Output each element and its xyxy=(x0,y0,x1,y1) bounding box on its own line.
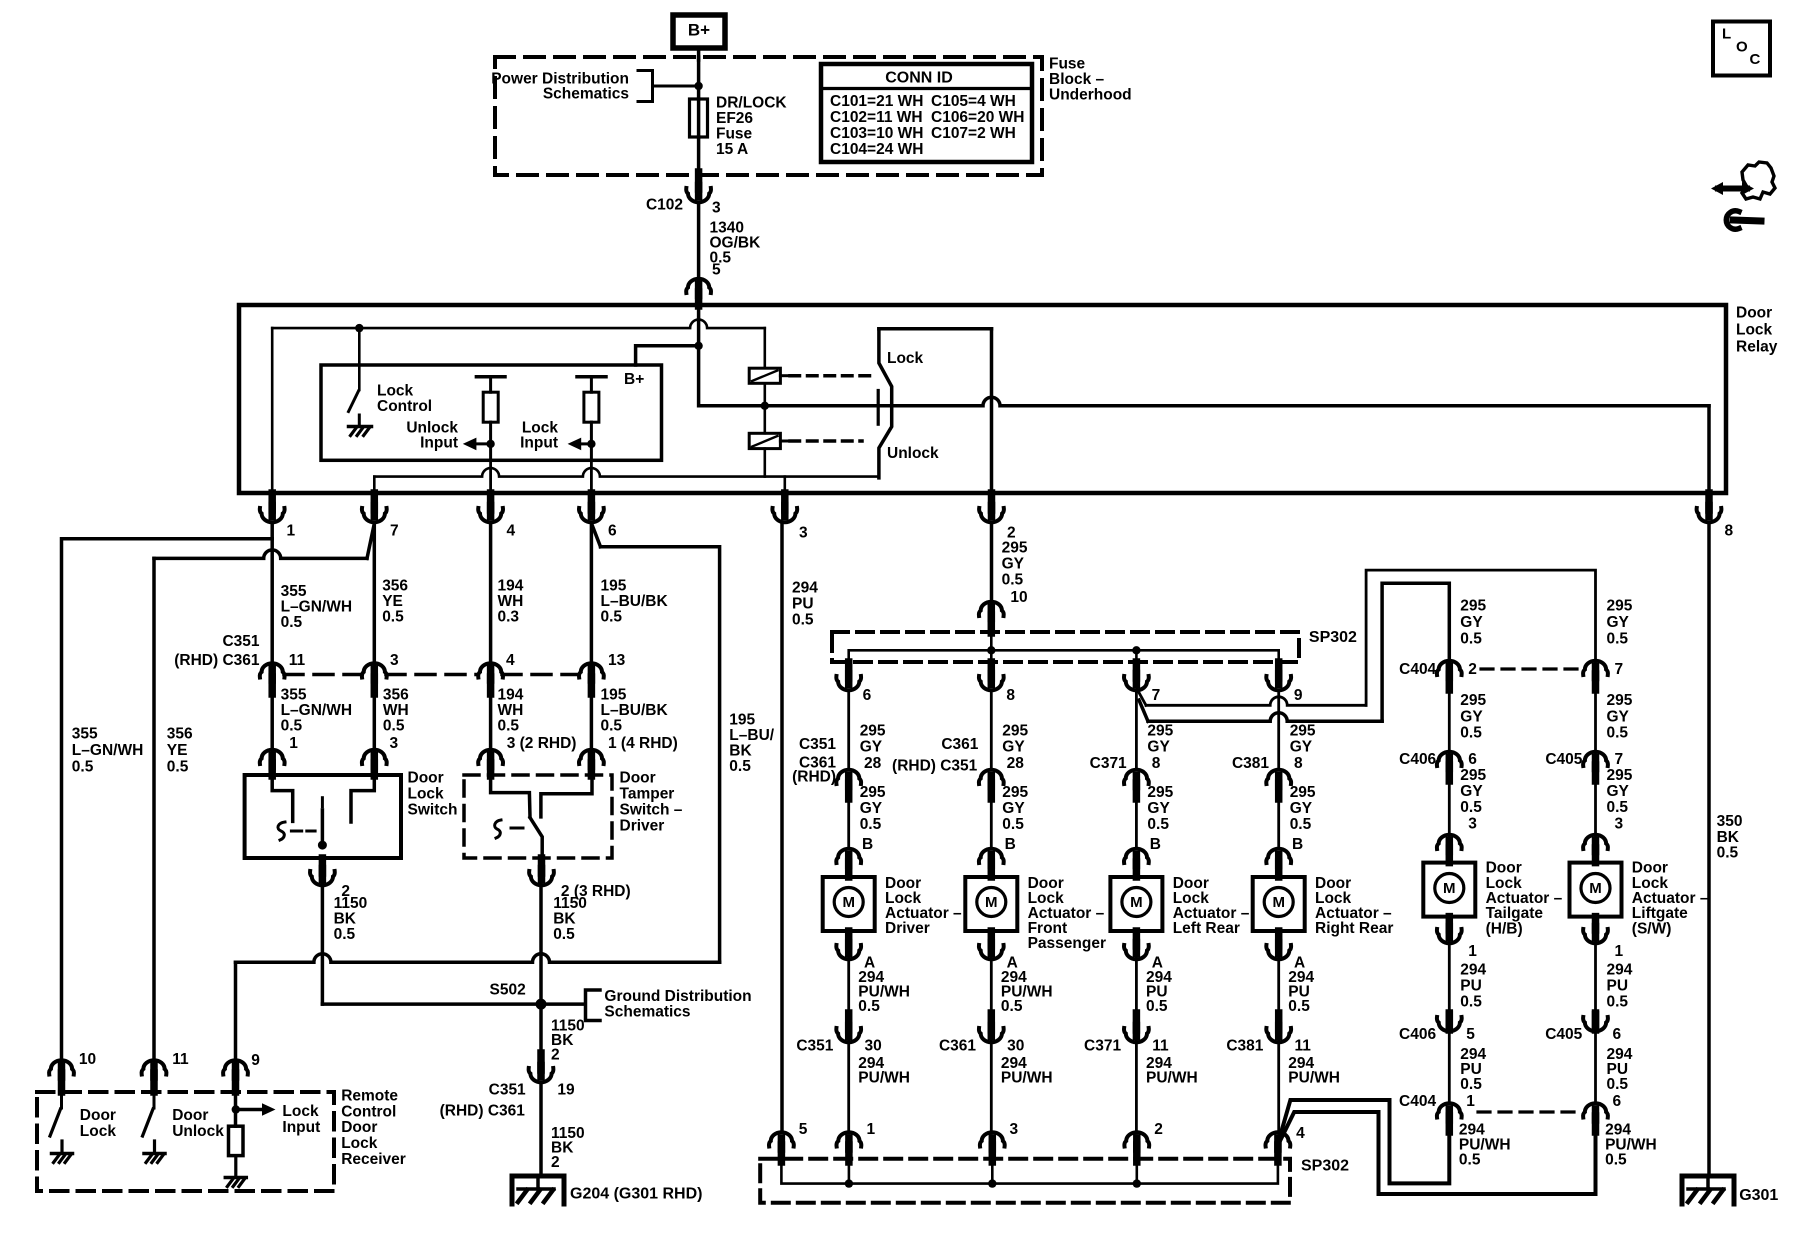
svg-text:295: 295 xyxy=(1147,723,1173,740)
svg-text:0.5: 0.5 xyxy=(1607,1076,1629,1093)
svg-text:6: 6 xyxy=(1613,1026,1622,1043)
svg-text:L–GN/WH: L–GN/WH xyxy=(72,742,143,759)
door lock actuator Left Rear xyxy=(1110,877,1162,931)
connector C381 pin 11 xyxy=(1275,1013,1283,1030)
tamper switch pin 2 xyxy=(538,858,546,873)
svg-text:9: 9 xyxy=(1294,687,1303,704)
svg-text:M: M xyxy=(985,894,998,911)
ground G301 xyxy=(1682,1176,1734,1204)
junction dot SP302 pin10 xyxy=(987,646,995,654)
svg-text:C351: C351 xyxy=(796,1038,833,1055)
wire 1150 BK to G204 xyxy=(539,1084,543,1176)
svg-text:295: 295 xyxy=(1607,598,1633,615)
junction dot lock input xyxy=(587,440,595,448)
svg-text:GY: GY xyxy=(860,739,883,756)
svg-text:7: 7 xyxy=(1615,661,1624,678)
svg-text:295: 295 xyxy=(1460,598,1486,615)
connector SP302 pin 5 xyxy=(769,1132,794,1146)
connector C351 pin 13 xyxy=(579,663,604,677)
door lock relay box xyxy=(239,305,1726,493)
svg-text:7: 7 xyxy=(1615,751,1624,768)
wire 295 GY 0.5 to actuator xyxy=(1277,799,1280,848)
svg-text:0.5: 0.5 xyxy=(601,717,623,734)
arrow lock input receiver xyxy=(236,1108,262,1112)
fuse DR/LOCK EF26 15A xyxy=(690,99,708,137)
adjustment tool icon wrench xyxy=(1733,220,1761,221)
wire 294 PU/WH to SP302 xyxy=(847,1041,850,1133)
wire 294 PU 0.5 low xyxy=(1448,1030,1451,1103)
tamper switch actuation squiggle xyxy=(495,820,501,838)
svg-text:Door: Door xyxy=(341,1119,377,1136)
svg-text:G204 (G301 RHD): G204 (G301 RHD) xyxy=(570,1186,703,1203)
relay switch lock side xyxy=(879,327,992,331)
svg-text:B: B xyxy=(1292,836,1303,853)
relay coil lock xyxy=(763,328,766,368)
svg-text:M: M xyxy=(1589,880,1602,897)
wire 295 GY SP302 pin7 fanout to tailgate xyxy=(1139,700,1148,721)
svg-text:6: 6 xyxy=(1468,751,1477,768)
connector C351 pin 19 upper half xyxy=(537,1053,545,1070)
svg-text:Passenger: Passenger xyxy=(1028,935,1106,952)
door lock actuator Tailgate xyxy=(1423,863,1475,917)
svg-text:SP302: SP302 xyxy=(1309,629,1357,646)
svg-text:Door: Door xyxy=(408,770,444,787)
junction dot B+ branch xyxy=(694,342,702,350)
svg-text:B+: B+ xyxy=(688,21,710,40)
connector C351 pin 30 xyxy=(845,1013,853,1030)
wire 295 GY 0.5 to actuator xyxy=(1448,781,1451,839)
svg-text:Lock: Lock xyxy=(887,350,924,367)
door tamper switch dashed box xyxy=(464,775,612,858)
svg-text:M: M xyxy=(1272,894,1285,911)
door lock switch in receiver xyxy=(60,1092,63,1108)
Fuse Block - Underhood dashed box xyxy=(495,57,1042,175)
connector receiver pin 10 xyxy=(49,1060,74,1074)
svg-text:Right Rear: Right Rear xyxy=(1315,920,1393,937)
junction dot SP302 pin3 xyxy=(988,1179,996,1187)
svg-text:GY: GY xyxy=(1002,800,1025,817)
wire 295 GY 0.5 to actuator xyxy=(990,799,993,848)
svg-text:356: 356 xyxy=(167,726,193,743)
wire 1150 BK door lock switch to S502 xyxy=(321,884,325,1004)
svg-text:Input: Input xyxy=(282,1119,320,1136)
wire 295 GY 0.5 to actuator xyxy=(1135,799,1138,848)
door lock switch movable contact xyxy=(321,798,324,807)
svg-text:295: 295 xyxy=(1290,723,1316,740)
svg-text:YE: YE xyxy=(167,742,188,759)
svg-text:Driver: Driver xyxy=(620,818,665,835)
door lock switch box xyxy=(245,775,401,858)
svg-text:GY: GY xyxy=(1002,739,1025,756)
wire 294 PU/WH to SP302 xyxy=(990,1041,993,1133)
svg-text:C: C xyxy=(1750,51,1761,68)
svg-text:294: 294 xyxy=(1460,962,1486,979)
connector SP302 pin 6 xyxy=(845,662,853,678)
wire 195 L-BU/BK relay pin6 to C351 pin 13 xyxy=(590,523,594,666)
svg-text:Remote: Remote xyxy=(341,1088,398,1105)
connector pin A xyxy=(988,931,996,946)
lock control switch xyxy=(358,328,361,390)
svg-text:1: 1 xyxy=(287,523,296,540)
svg-text:0.5: 0.5 xyxy=(498,717,520,734)
svg-text:GY: GY xyxy=(1607,783,1630,800)
wire 295 GY SP302 pin7 fanout to liftgate xyxy=(1137,689,1146,705)
wire 355 L-GN/WH relay pin1 to C351 pin 11 xyxy=(270,523,274,666)
svg-text:295: 295 xyxy=(860,784,886,801)
internal line to pin 1 and lock control xyxy=(272,320,765,329)
wire fuse to C102 xyxy=(697,137,701,176)
wire 295 GY 0.5 between C404 and C406 xyxy=(1448,690,1451,758)
svg-text:3: 3 xyxy=(1468,816,1477,833)
svg-text:C101=21 WH: C101=21 WH xyxy=(830,93,923,110)
wire lock switch to pin 2 xyxy=(990,329,994,493)
connector pin A xyxy=(1133,931,1141,946)
svg-text:M: M xyxy=(842,894,855,911)
ground symbol lock control xyxy=(349,425,372,429)
wire B+ into fuse xyxy=(697,57,701,99)
tamper switch blade xyxy=(530,818,542,858)
svg-text:G301: G301 xyxy=(1739,1187,1778,1204)
svg-text:7: 7 xyxy=(1152,687,1161,704)
wire 1340 OG/BK 0.5 xyxy=(697,203,701,282)
svg-text:C351: C351 xyxy=(222,633,259,650)
svg-text:Control: Control xyxy=(377,398,432,415)
svg-text:B: B xyxy=(1150,836,1161,853)
wire bracket to B+ node xyxy=(653,85,699,88)
connector pin B xyxy=(979,849,1004,863)
svg-text:Switch: Switch xyxy=(408,802,458,819)
connector actuator pin 3 xyxy=(1437,835,1462,849)
svg-text:Control: Control xyxy=(341,1103,396,1120)
svg-text:6: 6 xyxy=(1613,1093,1622,1110)
svg-text:B+: B+ xyxy=(624,371,644,388)
connector pin 5 relay half xyxy=(686,279,711,293)
wire 350 BK relay pin8 to G301 xyxy=(1707,524,1711,1176)
remote control door lock receiver dashed box xyxy=(37,1092,334,1191)
door lock actuator Passenger xyxy=(965,877,1017,931)
svg-text:Switch –: Switch – xyxy=(620,802,683,819)
svg-text:(H/B): (H/B) xyxy=(1486,920,1523,937)
connector C381 upper half xyxy=(1266,770,1291,784)
svg-text:295: 295 xyxy=(1290,784,1316,801)
wire 295 GY 0.5 between C404 and C406 xyxy=(1594,690,1597,758)
connector SP302 pin 9 xyxy=(1275,662,1283,678)
svg-text:0.5: 0.5 xyxy=(860,816,882,833)
svg-text:0.5: 0.5 xyxy=(1460,1076,1482,1093)
svg-text:10: 10 xyxy=(1010,589,1027,606)
svg-text:GY: GY xyxy=(1460,708,1483,725)
dashed link unlock coil to switch xyxy=(790,439,862,443)
svg-text:Lock: Lock xyxy=(341,1135,378,1152)
wire 294 PU 0.5 from actuator xyxy=(1277,958,1280,1013)
svg-text:Schematics: Schematics xyxy=(604,1004,690,1021)
ground G204 xyxy=(512,1176,564,1204)
wire lock input to pin 6 xyxy=(590,460,593,493)
dashed link lock coil to switch xyxy=(790,374,872,378)
wire 194 WH to tamper switch xyxy=(489,694,493,762)
svg-text:2: 2 xyxy=(551,1047,560,1064)
wire unlock input to pin 4 xyxy=(489,460,492,493)
door lock actuator Right Rear xyxy=(1253,877,1305,931)
connector SP302 pin 8 xyxy=(988,662,996,678)
connector C351 upper half xyxy=(836,770,861,784)
svg-text:L: L xyxy=(1722,26,1731,43)
svg-text:0.5: 0.5 xyxy=(1607,631,1629,648)
svg-text:Unlock: Unlock xyxy=(887,445,939,462)
ground symbol door lock xyxy=(52,1152,73,1156)
wire 355 to door lock switch xyxy=(270,694,274,762)
svg-text:295: 295 xyxy=(1002,784,1028,801)
svg-text:0.5: 0.5 xyxy=(1288,998,1310,1015)
dashed link C404 row1 xyxy=(1481,667,1583,670)
door lock switch contact 3 xyxy=(351,775,374,822)
junction dot coil chain xyxy=(761,402,769,410)
branch wire 195 L-BU/BK to tamper switch return xyxy=(593,526,601,547)
relay pin 4 xyxy=(487,493,495,510)
svg-text:0.5: 0.5 xyxy=(281,614,303,631)
wire 295 GY to connector C371 actuator Left Rear xyxy=(1135,691,1138,768)
svg-text:4: 4 xyxy=(507,523,516,540)
svg-text:0.5: 0.5 xyxy=(729,758,751,775)
connector pin B xyxy=(1124,849,1149,863)
svg-text:4: 4 xyxy=(506,652,515,669)
svg-text:GY: GY xyxy=(1607,614,1630,631)
svg-text:0.5: 0.5 xyxy=(601,608,623,625)
svg-text:0.5: 0.5 xyxy=(1607,799,1629,816)
svg-text:C371: C371 xyxy=(1090,755,1127,772)
wire S502 to ground distribution bracket xyxy=(541,1002,584,1006)
branch wire to door lock switch pin 10 xyxy=(62,539,273,1063)
svg-text:Lock: Lock xyxy=(1736,322,1773,339)
svg-text:0.5: 0.5 xyxy=(383,717,405,734)
svg-text:C103=10 WH: C103=10 WH xyxy=(830,125,923,142)
branch wire to door unlock switch pin 11 xyxy=(367,526,374,558)
arrow unlock input xyxy=(476,442,490,445)
svg-text:294: 294 xyxy=(792,580,818,597)
svg-text:295: 295 xyxy=(1607,692,1633,709)
svg-text:0.5: 0.5 xyxy=(1717,845,1739,862)
svg-text:6: 6 xyxy=(608,523,617,540)
svg-text:15 A: 15 A xyxy=(716,141,748,158)
svg-text:Door: Door xyxy=(1736,305,1772,322)
svg-text:C404: C404 xyxy=(1399,661,1436,678)
svg-text:5: 5 xyxy=(1466,1026,1475,1043)
svg-text:BK: BK xyxy=(1717,829,1740,846)
svg-text:1: 1 xyxy=(289,735,298,752)
wire 195 return line to receiver pin 9 xyxy=(236,954,720,963)
svg-text:B: B xyxy=(1005,836,1016,853)
svg-text:C406: C406 xyxy=(1399,751,1436,768)
svg-text:Lock: Lock xyxy=(282,1103,319,1120)
svg-text:5: 5 xyxy=(712,262,721,279)
svg-text:0.5: 0.5 xyxy=(1460,799,1482,816)
connector C351 pin 4 xyxy=(478,663,503,677)
svg-text:PU/WH: PU/WH xyxy=(858,1070,910,1087)
tamper switch contact 3 xyxy=(491,775,530,817)
wire 294 PU/WH to SP302 xyxy=(1277,1041,1280,1133)
door lock switch contact 1 xyxy=(272,775,293,821)
svg-text:Input: Input xyxy=(520,435,558,452)
relay pin 2 xyxy=(988,493,996,510)
svg-text:PU: PU xyxy=(1460,978,1482,995)
junction dot lock control xyxy=(355,324,363,332)
wire 195 L-BU/BK to tamper switch xyxy=(590,694,594,762)
connector pin A xyxy=(1275,931,1283,946)
svg-text:11: 11 xyxy=(1152,1038,1169,1055)
svg-text:13: 13 xyxy=(608,652,626,669)
svg-text:Left Rear: Left Rear xyxy=(1173,920,1240,937)
splice S502 xyxy=(536,999,547,1010)
svg-text:11: 11 xyxy=(172,1051,189,1068)
wire 356 YE relay pin7 to C351 pin 3 xyxy=(373,523,377,666)
connector C371 upper half xyxy=(1124,770,1149,784)
svg-text:1: 1 xyxy=(1615,943,1624,960)
connector pin A xyxy=(845,931,853,946)
SP302 lower bus xyxy=(778,1145,786,1162)
connector C351 pin 3 xyxy=(362,663,387,677)
svg-text:3 (2 RHD): 3 (2 RHD) xyxy=(507,735,577,752)
svg-text:(RHD) C351: (RHD) C351 xyxy=(892,758,978,775)
svg-text:5: 5 xyxy=(799,1121,808,1138)
svg-text:C406: C406 xyxy=(1399,1026,1436,1043)
dashed link C404 row6 xyxy=(1478,1110,1583,1113)
svg-text:9: 9 xyxy=(251,1052,260,1069)
connector SP302 pin 1 xyxy=(837,1132,862,1146)
junction dot at B+ feed xyxy=(694,82,702,90)
wire 295 GY to connector C361 actuator Passenger xyxy=(990,691,993,768)
pin 7 internal line xyxy=(374,468,878,476)
svg-text:S502: S502 xyxy=(489,982,525,999)
svg-text:C405: C405 xyxy=(1545,751,1582,768)
arrow lock input xyxy=(581,442,591,445)
svg-text:PU: PU xyxy=(1607,978,1629,995)
relay switch pole bar xyxy=(877,391,880,425)
svg-text:0.5: 0.5 xyxy=(1607,725,1629,742)
connector pin B xyxy=(836,849,861,863)
lock input resistor receiver xyxy=(229,1126,244,1155)
svg-text:GY: GY xyxy=(1607,708,1630,725)
connector SP302 pin 2 xyxy=(1124,1132,1149,1146)
svg-text:0.5: 0.5 xyxy=(1460,725,1482,742)
svg-text:Underhood: Underhood xyxy=(1049,86,1132,103)
connector receiver pin 9 xyxy=(223,1060,248,1074)
svg-text:295: 295 xyxy=(1002,540,1028,557)
wire pin5 feed inside relay xyxy=(697,305,701,346)
svg-text:1: 1 xyxy=(867,1121,876,1138)
svg-text:Input: Input xyxy=(420,435,458,452)
relay pin 3 xyxy=(781,493,789,510)
svg-text:295: 295 xyxy=(1002,723,1028,740)
svg-text:C107=2 WH: C107=2 WH xyxy=(931,125,1016,142)
svg-text:C381: C381 xyxy=(1226,1038,1263,1055)
svg-text:0.5: 0.5 xyxy=(1147,816,1169,833)
connector actuator pin 1 xyxy=(1446,917,1454,930)
svg-text:295: 295 xyxy=(1607,767,1633,784)
svg-text:295: 295 xyxy=(1460,767,1486,784)
svg-text:8: 8 xyxy=(1152,755,1161,772)
CONN ID table header separator xyxy=(821,87,1032,90)
door lock actuator Driver xyxy=(823,877,875,931)
wire 295 GY to connector C381 actuator Right Rear xyxy=(1277,691,1280,768)
svg-text:0.5: 0.5 xyxy=(1001,998,1023,1015)
wire 295 GY to connector C351 actuator Driver xyxy=(847,691,850,768)
svg-text:0.5: 0.5 xyxy=(1002,816,1024,833)
junction dot SP302 pin1 xyxy=(845,1179,853,1187)
wire 294 PU/WH 0.5 return xyxy=(1280,1100,1450,1183)
wire 294 PU 0.5 from actuator xyxy=(1135,958,1138,1013)
SP302 upper bus drops xyxy=(990,650,993,662)
CONN ID table box xyxy=(821,64,1032,162)
svg-text:Unlock: Unlock xyxy=(172,1123,224,1140)
svg-text:0.5: 0.5 xyxy=(1460,994,1482,1011)
wire 356 WH to door lock switch xyxy=(373,694,377,762)
svg-text:C351: C351 xyxy=(489,1082,526,1099)
svg-text:28: 28 xyxy=(864,755,882,772)
svg-text:0.5: 0.5 xyxy=(1607,994,1629,1011)
svg-text:11: 11 xyxy=(289,652,306,669)
svg-text:295: 295 xyxy=(860,723,886,740)
wire 294 PU/WH 0.5 from actuator xyxy=(990,958,993,1013)
svg-text:0.3: 0.3 xyxy=(498,608,520,625)
svg-text:C361: C361 xyxy=(939,1038,976,1055)
relay pin 1 xyxy=(268,493,276,510)
svg-text:3: 3 xyxy=(390,652,399,669)
svg-text:GY: GY xyxy=(860,800,883,817)
svg-text:355: 355 xyxy=(72,726,98,743)
connector C405 pin 6 xyxy=(1592,1013,1600,1030)
wire 1150 BK tamper switch to S502 xyxy=(539,884,543,1055)
door lock switch actuation squiggle xyxy=(278,822,285,840)
svg-text:C102: C102 xyxy=(646,197,683,214)
svg-text:0.5: 0.5 xyxy=(792,612,814,629)
svg-text:O: O xyxy=(1736,39,1748,56)
SP302 upper bus xyxy=(990,633,993,650)
door lock actuator Liftgate xyxy=(1570,863,1622,917)
svg-text:6: 6 xyxy=(863,687,872,704)
svg-text:4: 4 xyxy=(1296,1125,1305,1142)
wire 294 PU 0.5 xyxy=(1594,942,1597,1013)
connector actuator pin 3 xyxy=(1583,835,1608,849)
svg-text:0.5: 0.5 xyxy=(281,717,303,734)
svg-text:C405: C405 xyxy=(1545,1026,1582,1043)
svg-text:1 (4 RHD): 1 (4 RHD) xyxy=(608,735,678,752)
svg-text:GY: GY xyxy=(1147,800,1170,817)
svg-text:0.5: 0.5 xyxy=(1460,631,1482,648)
svg-text:Driver: Driver xyxy=(885,920,930,937)
bracket ground distribution xyxy=(586,990,601,1021)
relay internal control box xyxy=(321,365,662,460)
svg-text:0.5: 0.5 xyxy=(1290,816,1312,833)
svg-text:1: 1 xyxy=(1468,943,1477,960)
svg-text:295: 295 xyxy=(1147,784,1173,801)
svg-text:0.5: 0.5 xyxy=(553,926,575,943)
bracket to Power Distribution xyxy=(638,71,653,102)
svg-text:PU/WH: PU/WH xyxy=(1288,1070,1340,1087)
pin 3 internal drop xyxy=(783,477,786,493)
connector C406 pin 5 xyxy=(1446,1013,1454,1030)
adjustment tool icon arrow xyxy=(1718,186,1747,192)
splice pack SP302 lower dashed box xyxy=(760,1159,1290,1203)
junction dot SP302 pin2 xyxy=(1133,1179,1141,1187)
C351 row dashed link xyxy=(284,673,362,677)
wire pin1 riser xyxy=(271,328,274,493)
svg-text:PU/WH: PU/WH xyxy=(1146,1070,1198,1087)
svg-text:30: 30 xyxy=(1007,1038,1024,1055)
junction dot SP302 left rear tap xyxy=(1132,646,1140,654)
svg-text:8: 8 xyxy=(1006,687,1015,704)
svg-text:0.5: 0.5 xyxy=(858,998,880,1015)
svg-text:SP302: SP302 xyxy=(1301,1158,1349,1175)
